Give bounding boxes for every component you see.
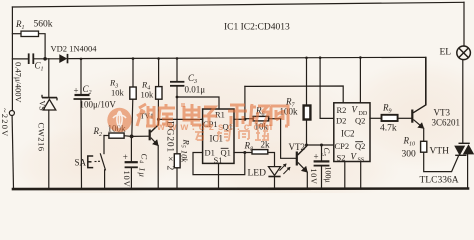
wire R6 riser to VT2 base [281, 119, 296, 159]
watermark big characters [137, 104, 288, 127]
wire R7 top [306, 58, 308, 105]
svg-text:300: 300 [402, 150, 417, 160]
capacitor C3 0.01u [170, 73, 205, 95]
wire R2 right lead to node [124, 135, 132, 138]
wire C2 branch [80, 59, 82, 94]
svg-text:0.47μ/400V: 0.47μ/400V [14, 62, 24, 104]
wire node to VT1 base [132, 135, 149, 137]
svg-text:~220V: ~220V [0, 108, 10, 138]
watermark tm [181, 103, 185, 107]
wire C5 top [321, 145, 323, 160]
wire VT3 emitter vertical [423, 128, 425, 141]
wire D1 to Q1bar feedback loop [193, 153, 245, 175]
wire R1 branch right [39, 34, 46, 59]
resistor R8 2k [244, 140, 271, 155]
svg-text:10k: 10k [111, 88, 125, 98]
svg-text:CP2: CP2 [335, 141, 350, 151]
wire VT1 collector diagonal [151, 125, 159, 132]
resistor R4 10k [141, 80, 163, 100]
wire C5 bottom [321, 166, 323, 189]
wire R3 bottom to node [132, 99, 133, 136]
wire bottom ground bus [13, 187, 468, 190]
wire R4 top [158, 59, 160, 87]
svg-text:0.01μ: 0.01μ [185, 85, 206, 95]
svg-text:10k: 10k [141, 90, 155, 100]
capacitor C1 [14, 53, 44, 103]
IC U1 box [203, 109, 234, 163]
wire R4 bottom / VT1 collector vertical [157, 99, 159, 124]
wire VDD bus [69, 57, 426, 105]
capacitor C4 electrolytic [122, 152, 150, 188]
wire R9 to VT3 base [398, 117, 412, 119]
svg-text:LED: LED [248, 169, 267, 179]
transistor TV1 [140, 112, 158, 146]
transistor VT3 [411, 105, 460, 128]
svg-text:S2: S2 [337, 153, 346, 163]
wire VS branch [48, 59, 50, 98]
svg-text:2k: 2k [261, 140, 271, 150]
svg-text:R2: R2 [337, 105, 347, 115]
svg-text:10V: 10V [309, 169, 318, 185]
svg-text:10V: 10V [122, 171, 132, 188]
svg-text:S1: S1 [214, 155, 223, 165]
wire C3 top [176, 58, 178, 81]
IC1 pin labels [203, 110, 233, 165]
wire R3 top [132, 59, 134, 87]
watermark logo circle [107, 108, 131, 132]
LED [248, 164, 291, 179]
transistor VT2 [289, 142, 307, 172]
wire Q2 to R9 [370, 117, 382, 119]
svg-text:IC2: IC2 [341, 129, 355, 139]
resistor R7 100k [280, 97, 311, 120]
svg-text:100μ/10V: 100μ/10V [80, 100, 117, 110]
switch SA lever [100, 154, 105, 170]
wire LED cathode to bus [274, 177, 276, 189]
background tint blobs [10, 60, 474, 205]
svg-text:+: + [314, 152, 319, 162]
wire VT3 collector diagonal [413, 105, 425, 113]
svg-text:TLC336A: TLC336A [420, 176, 459, 186]
svg-text:IC1: IC1 [210, 134, 224, 144]
svg-text:100μ: 100μ [324, 167, 333, 183]
svg-text:C1: C1 [35, 61, 44, 73]
wire CP1 line [158, 118, 202, 120]
wire triac MT1 to bus [467, 154, 469, 188]
wire R5 bottom [176, 168, 178, 189]
resistor R9 4.7k [380, 103, 398, 134]
wire VT2 collector diagonal [298, 146, 307, 154]
svg-text:Q2: Q2 [355, 141, 365, 151]
IC U2 box [334, 103, 370, 162]
wire Q1 output [234, 118, 245, 120]
wire R2 left lead [104, 135, 109, 137]
wire C3 bottom / R5 column [176, 86, 178, 153]
wire C4 bottom [130, 168, 132, 189]
wire R7 bottom [306, 119, 308, 145]
svg-text:+: + [123, 152, 128, 162]
wire R6 left lead [245, 118, 253, 120]
switch SA button [75, 156, 101, 168]
svg-text:IC1 IC2:CD4013: IC1 IC2:CD4013 [224, 23, 290, 33]
IC2 pin labels [335, 105, 368, 164]
svg-text:560k: 560k [34, 20, 53, 30]
wire C1 to VD2 [34, 58, 60, 60]
wire AC slant to ground bus [12, 116, 13, 189]
wire S2 pin [344, 162, 346, 189]
wire SA upper stub [103, 136, 105, 154]
wire S1 pin [218, 163, 220, 188]
svg-text:D2: D2 [336, 116, 346, 126]
triac VTH TLC336A [420, 143, 474, 185]
resistor R5 10k [174, 139, 191, 168]
svg-text:VS: VS [38, 101, 47, 111]
svg-text:+: + [74, 86, 79, 96]
wire IC1 reset R1 pin [177, 97, 219, 109]
zener VS CW216 [37, 95, 58, 152]
wire R1 branch left [12, 33, 21, 35]
svg-text:SA: SA [75, 158, 87, 168]
wire VSS pin [360, 162, 362, 189]
wire left AC vertical [11, 7, 13, 110]
resistor R1 560k [15, 19, 53, 37]
resistor R3 10k [109, 78, 136, 100]
wire VT1 emitter vertical [157, 146, 159, 189]
svg-text:VTH: VTH [430, 147, 450, 157]
wire C4 top [130, 136, 132, 161]
wire Q1bar to R8 [234, 152, 252, 154]
resistor R6 10k [253, 106, 268, 132]
wire R8 right to LED [268, 153, 275, 167]
wire D2 line from bus [320, 58, 334, 119]
capacitor C5 electrolytic [309, 148, 333, 185]
wire SA lower [104, 170, 106, 189]
wire CP2 line [307, 144, 334, 146]
diode VD2 1N4004 [51, 44, 98, 64]
wire lamp top lead [463, 2, 465, 46]
lamp EL [440, 46, 471, 60]
svg-text:Q2: Q2 [355, 116, 365, 126]
capacitor C2 electrolytic [74, 84, 117, 110]
wire VDD pin drop [359, 58, 361, 103]
wire VT2 emitter vertical [306, 172, 308, 189]
svg-text:SS: SS [358, 158, 365, 164]
wire H1 horizontal to IC2 top [245, 86, 343, 103]
wire R10 to triac gate [424, 152, 459, 171]
svg-text:VD2 1N4004: VD2 1N4004 [51, 44, 98, 54]
wire Q1 riser [244, 86, 246, 119]
svg-text:3C6201: 3C6201 [432, 118, 461, 128]
wire main line to C1 [12, 58, 28, 60]
watermark slogan line [195, 130, 269, 141]
svg-text:EL: EL [440, 48, 452, 58]
svg-text:VT2: VT2 [289, 142, 306, 152]
node AC terminal circle [9, 111, 14, 116]
svg-text:R1: R1 [15, 19, 25, 31]
wire R6 right lead [269, 118, 281, 120]
resistor R10 300 [402, 136, 427, 160]
svg-text:VT3: VT3 [434, 108, 451, 118]
wire top AC line [12, 2, 464, 7]
svg-text:CW216: CW216 [37, 123, 47, 152]
svg-text:4.7k: 4.7k [380, 124, 397, 134]
resistor R2 100k [93, 124, 127, 139]
wire lamp bottom lead [462, 60, 464, 144]
